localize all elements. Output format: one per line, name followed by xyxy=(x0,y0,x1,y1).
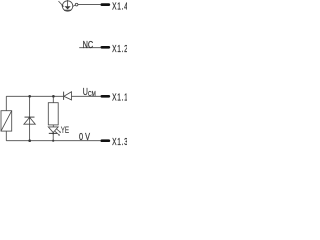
terminal bar X1.3 xyxy=(102,139,109,142)
earth chord bar xyxy=(64,9,71,11)
LED arrowhead 1 xyxy=(59,131,61,133)
left branch vertical bottom xyxy=(5,131,7,141)
middle branch vertical xyxy=(29,96,31,140)
freewheel diode apex dot xyxy=(29,117,31,119)
terminal bar X1.1 xyxy=(102,95,109,98)
left branch vertical top xyxy=(5,96,7,110)
svg-text:NC: NC xyxy=(83,39,94,50)
terminal bar X1.2 xyxy=(102,46,109,49)
junction dot top right xyxy=(52,95,55,98)
bottom wire 0V xyxy=(6,140,100,142)
svg-text:X1.1: X1.1 xyxy=(112,91,127,103)
LED triangle xyxy=(48,127,58,133)
terminal bar X1.4 xyxy=(102,3,109,6)
LED arrow 1 xyxy=(56,129,60,133)
surge arrowhead xyxy=(61,4,64,7)
svg-text:X1.4: X1.4 xyxy=(112,0,127,12)
LED arrow 2 xyxy=(55,131,59,135)
junction dot bottom LED xyxy=(52,140,54,142)
svg-text:X1.3: X1.3 xyxy=(112,136,127,148)
varistor RU rect xyxy=(1,111,12,131)
junction dot top middle xyxy=(28,95,31,98)
earth filled triangle xyxy=(65,6,71,9)
wire NC stub xyxy=(79,47,100,49)
svg-text:UCM: UCM xyxy=(83,86,96,99)
svg-text:YE: YE xyxy=(61,125,69,135)
LED bottom stub xyxy=(52,133,54,140)
freewheel diode bar xyxy=(25,116,35,118)
wire X1.1 left segment xyxy=(6,95,63,97)
open connector circle xyxy=(75,3,78,6)
wire to X1.4 xyxy=(78,4,101,6)
right branch vertical top xyxy=(52,96,54,102)
earth stem xyxy=(67,0,69,6)
wire X1.1 right segment xyxy=(72,95,101,97)
freewheel diode triangle xyxy=(24,117,35,124)
diode D1 triangle xyxy=(64,92,72,100)
surge arrow into earth symbol xyxy=(59,1,63,5)
resistor R1 rect xyxy=(48,103,58,125)
junction dot bottom middle xyxy=(28,139,31,142)
LED apex dot xyxy=(52,132,54,134)
diode D1 cathode bar xyxy=(63,92,65,100)
varistor diagonal xyxy=(1,111,12,131)
svg-text:0 V: 0 V xyxy=(79,131,90,142)
resistor to LED stub xyxy=(52,125,54,127)
LED cathode bar xyxy=(49,132,57,134)
LED arrowhead 2 xyxy=(58,134,60,136)
svg-text:X1.2: X1.2 xyxy=(112,43,127,55)
earth circle U0 xyxy=(62,1,72,11)
link to connector circle xyxy=(72,5,75,7)
